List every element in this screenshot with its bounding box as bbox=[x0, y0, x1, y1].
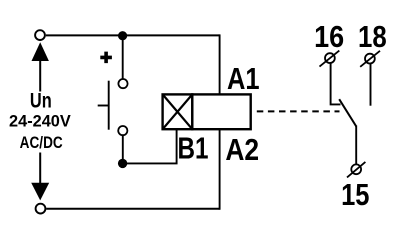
pushbutton contact circle lower bbox=[118, 126, 127, 135]
svg-text:AC/DC: AC/DC bbox=[20, 133, 63, 152]
terminal circle bottom-left bbox=[36, 204, 46, 214]
wire arrow shaft upper bbox=[39, 60, 41, 92]
relay coil X-box bbox=[163, 94, 193, 129]
wire contact 15 bbox=[355, 126, 357, 165]
junction node bottom bbox=[118, 159, 127, 168]
wire pushbutton lower to node bbox=[122, 136, 124, 163]
terminal circle 18 bbox=[365, 54, 375, 64]
svg-text:24-240V: 24-240V bbox=[9, 111, 71, 130]
junction node top bbox=[118, 31, 127, 40]
svg-text:A2: A2 bbox=[225, 133, 259, 167]
slash 16 bbox=[320, 51, 340, 67]
svg-text:16: 16 bbox=[314, 21, 344, 55]
svg-text:18: 18 bbox=[358, 20, 387, 55]
svg-text:15: 15 bbox=[341, 177, 369, 212]
arrow down (Un) bbox=[31, 183, 49, 201]
arrow up (Un) bbox=[32, 42, 49, 61]
slash 18 bbox=[360, 51, 380, 67]
wire A1 vertical down to coil bbox=[219, 34, 221, 94]
slash 15 bbox=[347, 162, 365, 178]
svg-text:Un: Un bbox=[30, 89, 52, 112]
wire contact 16 bbox=[331, 64, 341, 105]
terminal circle 16 bbox=[325, 53, 335, 63]
wire contact 18 bbox=[370, 64, 372, 106]
wire A2 vertical from coil down bbox=[219, 129, 221, 210]
svg-text:B1: B1 bbox=[178, 131, 209, 165]
wire node to B1 bbox=[123, 130, 177, 163]
plus sign bbox=[100, 52, 112, 64]
wire arrow shaft lower bbox=[39, 153, 41, 185]
contact arm bbox=[339, 99, 356, 126]
terminal circle 15 bbox=[351, 164, 361, 174]
svg-text:A1: A1 bbox=[227, 61, 260, 96]
pushbutton actuator bar bbox=[108, 81, 110, 130]
terminal circle top-left bbox=[35, 30, 45, 40]
pushbutton contact circle upper bbox=[118, 79, 127, 88]
pushbutton actuator tick bbox=[98, 105, 109, 107]
wire bottom horizontal bbox=[46, 208, 219, 210]
relay coil rectangle bbox=[192, 94, 250, 129]
wire top horizontal bbox=[46, 34, 220, 36]
wire from junction to pushbutton bbox=[122, 36, 124, 79]
dashed link coil to contact bbox=[257, 110, 340, 112]
